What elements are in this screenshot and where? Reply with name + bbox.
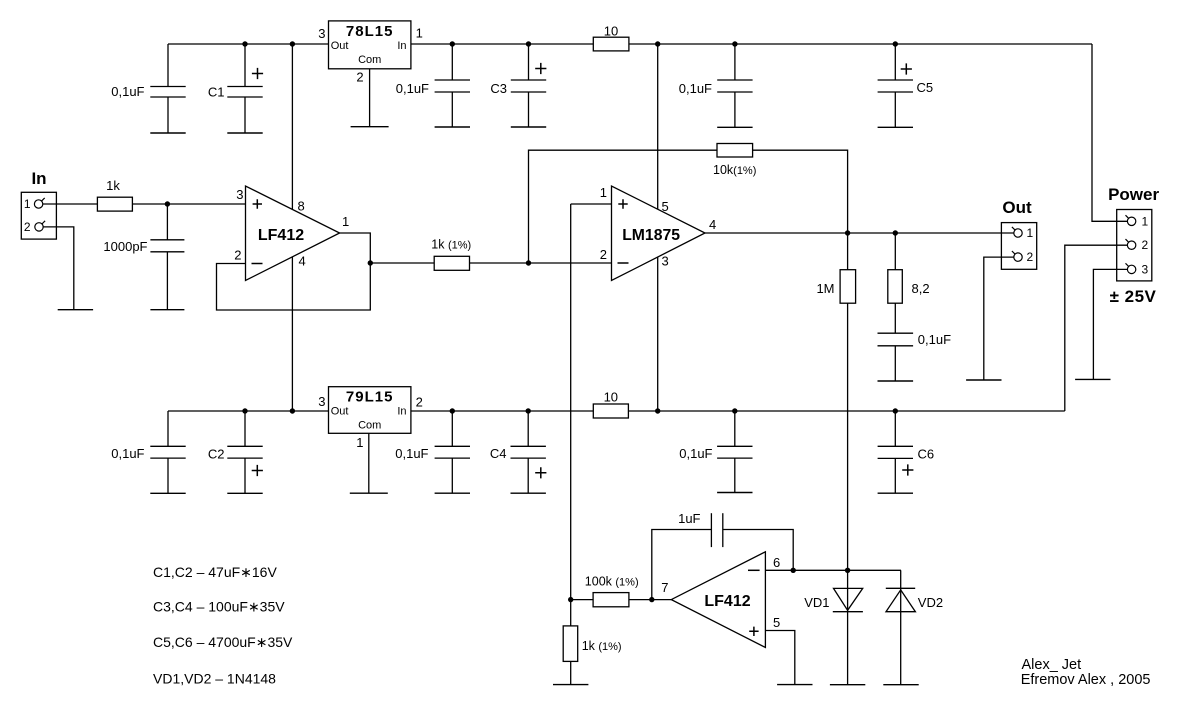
svg-text:C6: C6 (918, 447, 935, 462)
wire 1M to servo line (847, 303, 849, 570)
svg-text:VD1,VD2 – 1N4148: VD1,VD2 – 1N4148 (153, 671, 276, 687)
polarity + of C5 (901, 63, 912, 74)
op-amp U3 LM1875 (612, 186, 706, 281)
svg-text:10: 10 (604, 390, 618, 405)
svg-text:79L15: 79L15 (346, 389, 394, 406)
svg-text:8: 8 (298, 199, 305, 214)
capacitor 0,1uF (Zobel) (894, 303, 896, 333)
svg-text:C5: C5 (917, 80, 934, 95)
svg-text:C3: C3 (490, 81, 507, 96)
svg-text:0,1uF: 0,1uF (679, 446, 712, 461)
wire servo feedback right (723, 530, 793, 571)
wire 100k to pin7 (629, 599, 671, 601)
svg-text:1: 1 (1142, 214, 1149, 228)
svg-text:3: 3 (236, 187, 243, 202)
svg-text:C1,C2 – 47uF∗16V: C1,C2 – 47uF∗16V (153, 564, 277, 580)
wire bottom -15V rail (168, 410, 1065, 412)
svg-text:1: 1 (356, 435, 363, 450)
ground (878, 492, 913, 494)
svg-text:78L15: 78L15 (346, 23, 394, 40)
polarity + of C4 (535, 467, 546, 478)
svg-text:Com: Com (358, 420, 381, 432)
wire to 8,2 (894, 233, 896, 270)
regulator U4 79L15 (329, 387, 411, 434)
node junction dots on bottom rail (242, 408, 247, 413)
wire 1k to LF412 pin3 (132, 203, 245, 205)
node junction dots on top rail (242, 41, 247, 46)
svg-text:1M: 1M (816, 281, 834, 296)
ground (435, 126, 470, 128)
wire pin3 to bottom rail (657, 257, 659, 411)
wire to 1k (1%) shunt (570, 600, 572, 626)
svg-text:1: 1 (24, 197, 31, 211)
capacitor 0,1uF (mid bottom) (734, 411, 736, 446)
wire pin1 to servo node (570, 204, 572, 600)
ground (1075, 378, 1110, 380)
svg-text:C5,C6 – 4700uF∗35V: C5,C6 – 4700uF∗35V (153, 634, 293, 650)
wire 79L15 Com to ground (368, 433, 370, 493)
svg-text:2: 2 (416, 395, 423, 410)
op-amp U5 LF412 (servo) (671, 552, 765, 648)
svg-text:1k (1%): 1k (1%) (431, 238, 471, 252)
wire pin4 to bottom rail (291, 257, 293, 411)
svg-text:3: 3 (318, 26, 325, 41)
svg-text:5: 5 (662, 199, 669, 214)
wire to VD2 (900, 570, 902, 684)
svg-text:10: 10 (604, 24, 618, 39)
ground (553, 684, 588, 686)
resistor 1k (1%) servo (563, 626, 578, 662)
svg-text:C4: C4 (490, 446, 507, 461)
svg-text:3: 3 (662, 254, 669, 269)
wire pin1 input (571, 203, 612, 205)
svg-text:1: 1 (416, 26, 423, 41)
op-amp U1 LF412 (246, 186, 340, 281)
wire feedback up (529, 150, 718, 263)
wire Out pin2 to ground (984, 257, 1014, 380)
svg-text:2: 2 (600, 247, 607, 262)
ground (878, 126, 913, 128)
ground (150, 492, 185, 494)
capacitor C1 (244, 44, 246, 87)
ground (717, 492, 752, 494)
ground (830, 684, 865, 686)
svg-text:0,1uF: 0,1uF (679, 81, 712, 96)
wire feedback to output (753, 150, 848, 233)
resistor 1k (input) (97, 197, 132, 211)
wire pin5 to ground (765, 631, 794, 685)
ground (511, 492, 546, 494)
svg-text:0,1uF: 0,1uF (918, 332, 951, 347)
wire 1k to ground (570, 661, 572, 684)
svg-text:Efremov Alex , 2005: Efremov Alex , 2005 (1021, 672, 1151, 688)
ground (435, 492, 470, 494)
resistor 1k (1%) (434, 256, 469, 270)
svg-text:LM1875: LM1875 (622, 227, 680, 244)
svg-text:C1: C1 (208, 85, 225, 100)
resistor 10 (top rail) (593, 37, 629, 51)
wire to LM1875 pin2 (470, 262, 612, 264)
svg-text:10k(1%): 10k(1%) (713, 163, 756, 177)
node output junction 8,2 (893, 230, 898, 235)
capacitor 1uF (710, 513, 712, 547)
svg-text:1: 1 (342, 214, 349, 229)
polarity + of C1 (252, 68, 263, 79)
svg-text:1: 1 (600, 185, 607, 200)
resistor 8,2 (888, 270, 903, 304)
svg-text:0,1uF: 0,1uF (396, 81, 429, 96)
svg-text:1: 1 (1027, 226, 1034, 240)
svg-text:2: 2 (1142, 238, 1149, 252)
capacitor 0,1uF (bottom left) (167, 411, 169, 446)
capacitor 0,1uF (after 78L15) (451, 44, 453, 80)
node junction 1k/10k (526, 260, 531, 265)
ground (350, 492, 388, 494)
ground (351, 126, 389, 128)
resistor 100k (1%) (593, 593, 629, 607)
resistor 10 (bottom rail) (593, 404, 628, 418)
polarity + of C2 (252, 465, 263, 476)
svg-text:Alex_ Jet: Alex_ Jet (1022, 657, 1082, 673)
svg-text:In: In (31, 169, 46, 188)
svg-text:LF412: LF412 (258, 227, 304, 244)
node output junction 1M (845, 230, 850, 235)
ground (227, 492, 262, 494)
svg-text:4: 4 (299, 254, 306, 269)
ground (777, 684, 812, 686)
svg-text:C3,C4 – 100uF∗35V: C3,C4 – 100uF∗35V (153, 599, 285, 615)
svg-text:8,2: 8,2 (912, 281, 930, 296)
ground (966, 379, 1001, 381)
svg-text:5: 5 (773, 615, 780, 630)
svg-text:1k (1%): 1k (1%) (582, 639, 622, 653)
svg-text:1000pF: 1000pF (103, 239, 147, 254)
resistor 1M (840, 270, 856, 304)
diode VD1 (834, 588, 863, 610)
wire pin8 to top rail (291, 44, 293, 209)
ground (511, 126, 546, 128)
polarity + of C3 (535, 63, 546, 74)
wire In pin2 to ground (43, 227, 74, 310)
ground (883, 684, 918, 686)
svg-text:Out: Out (331, 406, 349, 418)
ground (58, 309, 93, 311)
wire output to Out pin1 (705, 232, 1014, 234)
capacitor 0,1uF (top left) (167, 44, 169, 87)
svg-text:LF412: LF412 (704, 593, 750, 610)
svg-text:2: 2 (234, 248, 241, 263)
connector Power (1117, 210, 1152, 281)
node servo input junction (568, 597, 573, 602)
capacitor C2 (244, 411, 246, 446)
capacitor 0,1uF (after 79L15) (451, 411, 453, 446)
polarity + of C6 (902, 464, 913, 475)
capacitor C4 (527, 411, 529, 446)
svg-text:1k: 1k (106, 178, 120, 193)
ground (150, 309, 184, 311)
capacitor C6 (894, 411, 896, 446)
capacitor 1000pF (166, 204, 168, 240)
svg-text:6: 6 (773, 555, 780, 570)
wire to VD1 (847, 570, 849, 684)
ground (227, 132, 262, 134)
connector Out (1001, 223, 1036, 270)
wire pin6 output line (765, 569, 901, 571)
wire 78L15 Com to ground (369, 69, 371, 127)
node feedback junction (791, 568, 796, 573)
node pin7 junction (649, 597, 654, 602)
svg-text:2: 2 (1027, 250, 1034, 264)
svg-text:In: In (397, 406, 406, 418)
svg-text:4: 4 (709, 217, 716, 232)
regulator U2 78L15 (329, 21, 411, 69)
wire top rail to Power pin 1 (1092, 44, 1127, 221)
wire to 1M (847, 233, 849, 270)
svg-text:Out: Out (331, 40, 349, 52)
svg-text:Power: Power (1108, 185, 1159, 204)
svg-text:2: 2 (356, 70, 363, 85)
resistor 10k (1%) (717, 144, 753, 158)
svg-text:0,1uF: 0,1uF (111, 84, 144, 99)
svg-text:In: In (397, 40, 406, 52)
wire Power pin2 to bottom rail (1065, 245, 1128, 411)
svg-text:VD2: VD2 (918, 595, 943, 610)
wire Power pin3 to ground (1093, 269, 1127, 379)
capacitor C3 (528, 44, 530, 80)
svg-text:Com: Com (358, 54, 381, 66)
svg-text:3: 3 (1142, 262, 1149, 276)
node input junction (165, 201, 170, 206)
wire output to 1k 1% (370, 262, 434, 264)
svg-text:7: 7 (661, 580, 668, 595)
svg-text:1uF: 1uF (678, 511, 700, 526)
svg-text:3: 3 (318, 394, 325, 409)
diode VD2 (886, 587, 915, 589)
node VD junction (845, 568, 850, 573)
ground (717, 126, 752, 128)
node output junction (368, 260, 373, 265)
svg-text:0,1uF: 0,1uF (395, 446, 428, 461)
wire node to 100k (571, 599, 593, 601)
svg-text:0,1uF: 0,1uF (111, 446, 144, 461)
capacitor 0,1uF (mid top) (734, 44, 736, 80)
connector In (21, 192, 56, 239)
wire In pin1 to R 1k (43, 203, 98, 205)
wire pin5 to top rail (657, 44, 659, 209)
svg-text:VD1: VD1 (804, 595, 829, 610)
wire feedback loop LF412 (217, 233, 371, 310)
wire servo feedback left (652, 530, 712, 600)
svg-text:100k (1%): 100k (1%) (585, 575, 639, 589)
ground (878, 380, 914, 382)
svg-text:± 25V: ± 25V (1110, 287, 1157, 306)
svg-text:Out: Out (1002, 198, 1032, 217)
capacitor C5 (894, 44, 896, 80)
svg-text:2: 2 (24, 220, 31, 234)
ground (150, 132, 185, 134)
wire top +15V rail (168, 43, 1092, 45)
svg-text:C2: C2 (208, 447, 225, 462)
